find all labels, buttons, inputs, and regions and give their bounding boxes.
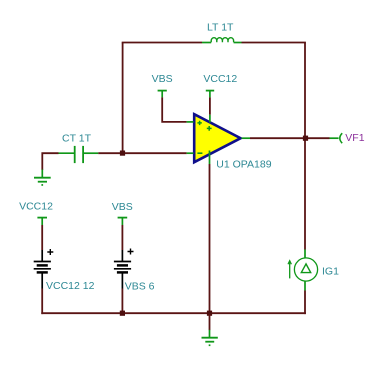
svg-text:VBS: VBS	[152, 73, 173, 85]
wire top horizontal left of inductor	[122, 42, 202, 44]
svg-text:VCC12: VCC12	[19, 201, 53, 213]
op-amp positive supply pin stub	[209, 115, 211, 123]
wire VCC12 pin to op-amp positive supply	[209, 97, 211, 114]
wire battery VBS to bottom rail	[121, 289, 123, 314]
op-amp negative supply pin stub	[209, 151, 211, 165]
op-amp U1	[187, 114, 250, 164]
junction dot output node	[303, 136, 308, 141]
wire top horizontal right of inductor	[242, 42, 306, 44]
terminal VF1	[330, 133, 343, 143]
op-amp noninverting input pin stub	[187, 121, 194, 123]
svg-text:U1 OPA189: U1 OPA189	[216, 158, 271, 170]
wire op-amp negative supply down to bottom rail	[209, 164, 211, 313]
ground left	[34, 170, 51, 186]
inductor LT	[202, 38, 242, 43]
battery VBS	[114, 249, 134, 289]
svg-text:VF1: VF1	[345, 132, 364, 144]
wire output to VF1	[250, 137, 330, 139]
wire VCC12 pin to battery	[41, 225, 43, 250]
svg-text:VCC12 12: VCC12 12	[46, 280, 95, 292]
wire VBS pin to noninverting input	[162, 97, 186, 122]
terminal VBS pin (battery)	[118, 218, 128, 225]
terminal VCC12 pin (battery)	[37, 218, 47, 225]
battery VCC12	[34, 249, 54, 289]
svg-text:CT 1T: CT 1T	[62, 133, 92, 145]
svg-text:VBS: VBS	[112, 201, 133, 213]
wire bottom rail	[41, 312, 306, 314]
svg-text:IG1: IG1	[322, 265, 339, 277]
current source IG1	[288, 250, 318, 291]
op-amp minus input marker	[197, 152, 202, 154]
wire capacitor right to op-amp inverting input	[98, 152, 186, 154]
terminal VCC12 pin (op-amp)	[206, 91, 214, 98]
op-amp plus input marker	[197, 121, 201, 125]
svg-text:VBS 6: VBS 6	[125, 280, 155, 292]
ground bottom	[202, 330, 218, 346]
op-amp output pin stub	[242, 137, 251, 139]
wire IG1 to bottom rail	[304, 291, 306, 315]
terminal VBS pin (op-amp)	[158, 91, 167, 98]
junction dot ground bottom node	[207, 311, 212, 316]
wire bottom ground stub	[209, 313, 211, 330]
wire feedback left vertical	[122, 43, 124, 154]
wire right vertical lower to IG1	[304, 138, 306, 249]
junction dot feedback/capacitor node	[120, 151, 125, 156]
op-amp plus supply marker	[207, 126, 212, 131]
wire battery VCC12 to bottom rail	[41, 289, 43, 315]
wire VBS pin to battery	[121, 225, 123, 250]
junction dot VBS bottom node	[120, 311, 125, 316]
wire right vertical upper	[304, 43, 306, 139]
wire capacitor left to ground corner	[42, 153, 58, 170]
svg-text:VCC12: VCC12	[203, 73, 237, 85]
capacitor CT	[59, 146, 99, 163]
svg-text:LT 1T: LT 1T	[207, 22, 234, 34]
op-amp inverting input pin stub	[187, 152, 194, 154]
